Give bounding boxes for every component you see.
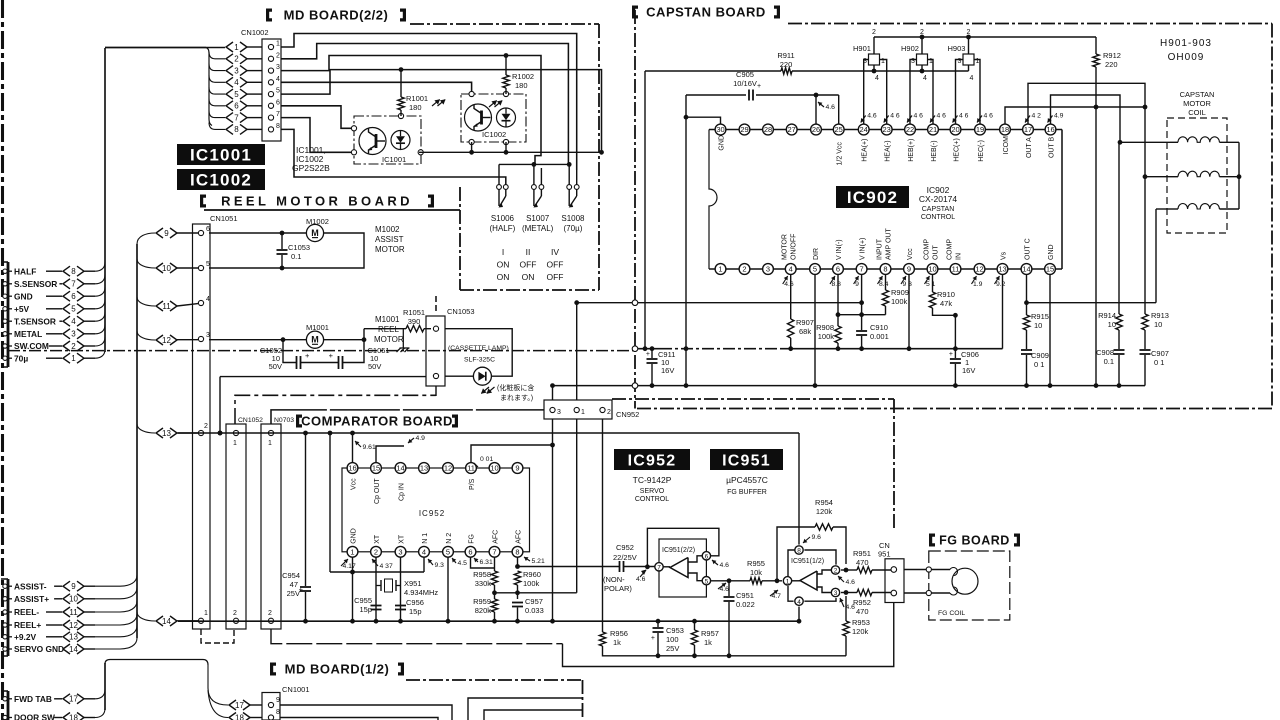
svg-text:6: 6 (206, 226, 210, 233)
op-amp IC951(2/2) triangle (670, 558, 688, 578)
fan curves CN1002 (206, 48, 212, 126)
svg-text:4: 4 (875, 75, 879, 82)
svg-text:C910: C910 (870, 323, 888, 332)
wire pin5 to GND bus (814, 274, 816, 385)
IC902 pin 18 (1000, 124, 1011, 135)
svg-text:R954: R954 (815, 498, 833, 507)
N0703 pin 2 (268, 618, 273, 623)
svg-text:IC902: IC902 (847, 188, 898, 207)
IC902 pin 22 (905, 124, 916, 135)
wire IC952 pin15 Cp OUT (376, 446, 404, 463)
svg-text:10: 10 (928, 265, 936, 274)
edge connector pin SW.COM (3, 344, 7, 348)
svg-text:2: 2 (834, 568, 838, 575)
svg-text:4.934MHz: 4.934MHz (404, 588, 438, 597)
svg-text:V IN(-): V IN(-) (836, 239, 843, 260)
svg-text:4.9: 4.9 (416, 435, 426, 442)
hall sensor H901 (869, 54, 880, 65)
svg-text:7: 7 (71, 280, 76, 289)
IC902 pin 3 (763, 264, 774, 275)
connector CN952 (544, 400, 612, 419)
svg-text:2: 2 (268, 610, 272, 617)
svg-text:C909: C909 (1031, 351, 1049, 360)
svg-text:1: 1 (581, 409, 585, 416)
svg-text:C951: C951 (736, 591, 754, 600)
svg-text:R952: R952 (853, 598, 871, 607)
svg-text:4.6: 4.6 (720, 586, 730, 593)
IC951(2/2) pin 7 (655, 563, 663, 571)
wire IC1001 output rail (419, 151, 602, 153)
svg-text:ASSIST-: ASSIST- (14, 581, 47, 591)
op-amp IC951(2/2) body box (659, 539, 706, 597)
cable arrow 10 (156, 263, 163, 273)
svg-text:IC952: IC952 (628, 452, 677, 469)
svg-text:9: 9 (855, 281, 859, 288)
svg-text:30: 30 (716, 125, 724, 134)
svg-text:R1001: R1001 (406, 94, 428, 103)
IC951(1/2) pin 1 (783, 577, 791, 585)
inter-board cable dash-dot wire y=350.6 (8, 350, 633, 352)
wire arrow13 to CN1051 pin2 (177, 432, 198, 434)
svg-text:CN952: CN952 (616, 410, 639, 419)
svg-text:HEC(-): HEC(-) (978, 140, 985, 162)
svg-text:4.7: 4.7 (772, 593, 782, 600)
svg-text:C908: C908 (1096, 348, 1114, 357)
svg-text:Vcc: Vcc (907, 248, 914, 260)
svg-text:47k: 47k (940, 299, 952, 308)
svg-text:R956: R956 (610, 629, 628, 638)
resistor R911 and rail (645, 70, 781, 72)
wire curve to bus (95, 575, 137, 586)
svg-text:N 2: N 2 (446, 533, 453, 544)
resistor R953 (845, 596, 847, 621)
svg-text:13: 13 (162, 429, 171, 438)
cassette lamp loop and labels (445, 329, 512, 377)
svg-text:(HALF): (HALF) (490, 224, 516, 233)
svg-text:4 6: 4 6 (914, 113, 924, 120)
svg-text:µPC4557C: µPC4557C (726, 475, 768, 485)
svg-text:4: 4 (789, 265, 793, 274)
connector CN1052 (226, 424, 246, 629)
edge connector pin 70µ (3, 356, 7, 360)
IC951(1/2) pin 4 (795, 597, 803, 605)
IC952 pin 15 (371, 463, 382, 474)
wire CN952 pin2 column to R956 (602, 419, 604, 632)
svg-text:R914: R914 (1098, 311, 1116, 320)
svg-text:OUT B: OUT B (1049, 136, 1056, 158)
svg-text:5: 5 (813, 265, 817, 274)
svg-text:5 1: 5 1 (926, 281, 936, 288)
svg-text:COMP: COMP (947, 239, 954, 260)
svg-text:180: 180 (409, 103, 422, 112)
IC902 pin 13 (997, 264, 1008, 275)
wire CN1002 pin3 (281, 56, 541, 165)
board title CAPSTAN BOARD (632, 6, 638, 19)
svg-text:H903: H903 (948, 44, 966, 53)
svg-text:OUT: OUT (933, 245, 940, 261)
board title FG BOARD (929, 534, 935, 547)
svg-text:4 37: 4 37 (380, 563, 393, 570)
optocoupler IC1001 LED (391, 131, 410, 150)
IC952 pin 6 (465, 546, 476, 557)
svg-text:20: 20 (951, 125, 959, 134)
svg-text:POLAR): POLAR) (604, 584, 632, 593)
switch S1007 (532, 185, 537, 190)
board title MD BOARD (1/2) (270, 663, 276, 676)
edge connector pin REEL+ (3, 623, 7, 627)
svg-text:S.SENSOR: S.SENSOR (14, 279, 57, 289)
svg-text:4.6: 4.6 (784, 281, 794, 288)
svg-text:1: 1 (71, 354, 76, 363)
resistor R914 and capacitor C908 snubber (1118, 142, 1120, 314)
wire arrow14 to CN1051 pin1 (177, 620, 198, 622)
wire curve to bus (95, 709, 105, 718)
CN952 pin 3 (550, 407, 555, 412)
CN1001 pin 9 (268, 702, 273, 707)
cable arrow 1 (226, 42, 233, 52)
svg-text:14: 14 (1022, 265, 1030, 274)
CN1002 pin 3 (268, 68, 273, 73)
connector CN1051 (193, 224, 211, 629)
IC902 pin 27 (786, 124, 797, 135)
wire OUT B pin16 to motor coil row1 (1051, 95, 1121, 142)
svg-text:N 1: N 1 (422, 533, 429, 544)
svg-text:14: 14 (162, 617, 171, 626)
svg-text:C954: C954 (282, 571, 300, 580)
edge connector pin GND (3, 294, 7, 298)
IC902 pin 16 (1045, 124, 1056, 135)
svg-text:7: 7 (276, 111, 280, 118)
wire x686 down to GND bus (685, 95, 687, 386)
svg-text:Vs: Vs (1001, 251, 1008, 260)
svg-text:OUT A: OUT A (1026, 137, 1033, 158)
svg-text:9.2: 9.2 (996, 281, 1006, 288)
svg-text:4.6: 4.6 (826, 104, 836, 111)
connector N0703 (261, 424, 281, 629)
IC952 body outline (342, 468, 530, 552)
edge connector block 2 (7, 579, 10, 656)
wire CN1002 pin4 to IC1002 (281, 82, 472, 94)
IC952 pin 16 (347, 463, 358, 474)
svg-text:7: 7 (492, 547, 496, 556)
svg-text:CAPSTAN: CAPSTAN (1180, 90, 1215, 99)
cable arrow 11 (156, 301, 163, 311)
wires CN1001 routing (280, 705, 452, 720)
IC902 pin 5 (810, 264, 821, 275)
cable arrow 6 (226, 101, 233, 111)
svg-text:R959: R959 (473, 597, 491, 606)
svg-text:+: + (646, 351, 650, 358)
edge connector pin S.SENSOR (3, 282, 7, 286)
CN1051 pin 6 (198, 230, 203, 235)
svg-text:4: 4 (71, 317, 76, 326)
svg-text:T.SENSOR: T.SENSOR (14, 316, 56, 326)
svg-text:ON: ON (497, 260, 510, 270)
svg-text:951: 951 (878, 550, 891, 559)
svg-text:IC952: IC952 (419, 509, 445, 518)
capacitor C955 (371, 605, 382, 607)
capacitor C1053 (281, 233, 283, 249)
wire curve to bus (95, 337, 105, 346)
IC902 pin 17 (1023, 124, 1034, 135)
svg-text:7: 7 (657, 564, 661, 571)
wire hall pin4 to R911 rail (873, 65, 875, 71)
capacitor C951 (728, 581, 730, 596)
svg-text:9.61: 9.61 (363, 444, 376, 451)
svg-text:6: 6 (468, 547, 472, 556)
svg-text:11: 11 (162, 302, 171, 311)
svg-text:820k: 820k (475, 606, 492, 615)
label IC902 (inverse) (836, 186, 909, 208)
svg-text:AFC: AFC (516, 530, 523, 544)
svg-text:0 1: 0 1 (1154, 358, 1164, 367)
CN951 pin top (891, 567, 897, 573)
cable arrow 13 (156, 428, 163, 438)
COMPARATOR board dashed border right (893, 399, 895, 528)
resistor R907 on pin4 (790, 274, 792, 319)
wire CN1002 pin6 to IC1001 (281, 106, 354, 129)
svg-text:1: 1 (234, 43, 239, 52)
svg-text:DOOR SW: DOOR SW (14, 713, 55, 720)
svg-text:AFC: AFC (493, 530, 500, 544)
svg-text:7: 7 (860, 265, 864, 274)
svg-text:16: 16 (1046, 125, 1054, 134)
wire pin5 to R955 (711, 580, 750, 582)
edge connector block 3 (7, 691, 10, 720)
CN951 pin bottom (891, 590, 897, 596)
svg-text:R907: R907 (796, 318, 814, 327)
label IC1001 (inverse) (177, 144, 265, 165)
svg-text:50V: 50V (269, 362, 282, 371)
svg-text:ON: ON (522, 272, 535, 282)
svg-text:R915: R915 (1031, 312, 1049, 321)
svg-text:INPUT: INPUT (877, 238, 884, 260)
IC952 pin 8 (512, 546, 523, 557)
svg-text:REEL: REEL (378, 325, 399, 334)
wire arrow11 to CN1051 pin4 (177, 304, 198, 306)
svg-text:IC1001: IC1001 (190, 146, 252, 165)
cable arrow 14 (156, 616, 163, 626)
svg-text:21: 21 (929, 125, 937, 134)
wire N0703 to CN952 pin3 (271, 410, 544, 424)
wire H901 pins to IC902 pins 24/23 (864, 60, 869, 125)
wire x645 down to Vcc bus (644, 71, 646, 349)
IC902 pin 4 (785, 264, 796, 275)
COMPARATOR board dashed border top-right (612, 398, 894, 400)
wire curve to bus (95, 614, 137, 625)
svg-text:H902: H902 (901, 44, 919, 53)
svg-text:8.4: 8.4 (879, 281, 889, 288)
svg-text:R913: R913 (1151, 311, 1169, 320)
svg-text:HEB(-): HEB(-) (931, 140, 938, 161)
board title MD BOARD (2/2) (266, 9, 272, 22)
svg-text:9: 9 (71, 582, 76, 591)
edge connector pin DOOR SW (3, 715, 7, 719)
connector CN1002 (262, 39, 281, 141)
CN1002 pin 5 (268, 92, 273, 97)
svg-text:ON: ON (497, 272, 510, 282)
svg-text:3: 3 (834, 590, 838, 597)
CN1051 pin 2 (198, 430, 203, 435)
CN1051 pin 4 (198, 300, 203, 305)
svg-text:R1051: R1051 (403, 308, 425, 317)
capacitor C952 non-polar (518, 566, 620, 568)
svg-text:4.6: 4.6 (636, 576, 646, 583)
CN1002 pin 6 (268, 103, 273, 108)
svg-text:1.9: 1.9 (973, 281, 983, 288)
IC902 pin 25 (833, 124, 844, 135)
wire pin15 GND down (1049, 274, 1051, 385)
svg-text:4 6: 4 6 (984, 113, 994, 120)
cable arrow 2 (226, 54, 233, 64)
svg-text:4.6: 4.6 (846, 579, 856, 586)
N0703 pin 1 (268, 430, 273, 435)
CN1002 pin 8 (268, 127, 273, 132)
FG coil (952, 568, 978, 594)
svg-text:6: 6 (705, 553, 709, 560)
CN1051 pin 3 (198, 336, 203, 341)
svg-text:1: 1 (233, 440, 237, 447)
switch S1006 (497, 185, 502, 190)
IC952 pin 10 (489, 463, 500, 474)
IC902 pin 14 (1021, 264, 1032, 275)
svg-text:5: 5 (705, 578, 709, 585)
IC951(1/2) loop (788, 550, 799, 581)
IC952 pin 13 (419, 463, 430, 474)
IC902 pin 24 (858, 124, 869, 135)
svg-text:9.3: 9.3 (435, 562, 445, 569)
optocoupler IC1001 phototransistor (359, 128, 386, 155)
svg-text:COMP: COMP (924, 239, 931, 260)
svg-text:CONTROL: CONTROL (921, 214, 955, 221)
IC902 pin 30 (715, 124, 726, 135)
wire GND pin30 branch (686, 117, 721, 124)
svg-text:R911: R911 (777, 51, 794, 60)
svg-text:9.6: 9.6 (812, 534, 822, 541)
svg-text:C905: C905 (736, 70, 754, 79)
capacitor C954 (305, 433, 307, 586)
svg-text:OFF: OFF (547, 272, 564, 282)
svg-text:14: 14 (69, 645, 78, 654)
svg-text:CX-20174: CX-20174 (919, 194, 958, 204)
wire curve to bus (95, 262, 105, 271)
svg-text:19: 19 (976, 125, 984, 134)
IC902 body outline (709, 129, 1062, 131)
svg-text:3: 3 (766, 265, 770, 274)
svg-text:9: 9 (276, 697, 280, 704)
svg-text:8: 8 (276, 123, 280, 130)
wire hall sensors pin2 rail to R912 (874, 36, 1096, 38)
svg-text:+5V: +5V (14, 304, 30, 314)
IC902 pin 9 (904, 264, 915, 275)
IC951(2/2) pin 6 (702, 552, 710, 560)
svg-text:COMPARATOR BOARD: COMPARATOR BOARD (301, 413, 453, 428)
cable bus wire bottom (vertical x=105) (104, 663, 106, 710)
svg-text:C952: C952 (616, 543, 634, 552)
svg-text:SERVO: SERVO (640, 488, 665, 495)
svg-text:0.1: 0.1 (291, 252, 301, 261)
svg-text:R1002: R1002 (512, 72, 534, 81)
svg-text:29: 29 (740, 125, 748, 134)
svg-text:25V: 25V (287, 589, 300, 598)
wire comparator V IN line y=302.7 (577, 302, 862, 304)
svg-text:10: 10 (162, 264, 171, 273)
svg-text:IC951(1/2): IC951(1/2) (791, 558, 824, 565)
cable arrow 17 (229, 700, 236, 710)
CAPSTAN board dashed border top (788, 23, 1272, 25)
svg-text:12: 12 (444, 464, 452, 473)
svg-text:HEA(+): HEA(+) (862, 139, 869, 162)
resistor R954 feedback (777, 527, 815, 581)
svg-text:AMP OUT: AMP OUT (886, 228, 893, 260)
svg-text:1: 1 (350, 547, 354, 556)
svg-text:0 01: 0 01 (480, 456, 493, 463)
wire CN1002 pin8 to S1006 (281, 129, 506, 184)
svg-text:10/16V: 10/16V (733, 79, 757, 88)
svg-text:10: 10 (1154, 320, 1162, 329)
svg-text:MOTOR: MOTOR (375, 245, 405, 254)
svg-text:CAPSTAN BOARD: CAPSTAN BOARD (646, 4, 766, 19)
svg-text:XT: XT (374, 534, 381, 544)
optocoupler IC1001 pins (351, 126, 356, 131)
svg-text:C906: C906 (961, 350, 979, 359)
edge connector block 1 (7, 262, 10, 367)
svg-text:11: 11 (952, 265, 960, 274)
svg-text:H901-903: H901-903 (1160, 38, 1212, 49)
svg-text:15p: 15p (409, 607, 422, 616)
IC951(1/2) pin 8 (795, 546, 803, 554)
svg-text:X951: X951 (404, 579, 422, 588)
svg-text:HEA(-): HEA(-) (885, 140, 892, 161)
svg-text:C907: C907 (1151, 349, 1169, 358)
svg-text:11: 11 (467, 464, 475, 473)
svg-text:1: 1 (276, 41, 280, 48)
svg-text:16: 16 (348, 464, 356, 473)
svg-text:14: 14 (396, 464, 404, 473)
svg-text:24: 24 (860, 125, 868, 134)
resistor R909 on pin8 (885, 274, 887, 290)
svg-text:R908: R908 (816, 323, 834, 332)
resistor R915 and capacitor C909 (1026, 303, 1028, 315)
capacitor C957 (512, 602, 523, 604)
wire coil row1 feed (1120, 141, 1170, 143)
svg-text:CN1051: CN1051 (210, 214, 238, 223)
svg-text:IC1001: IC1001 (382, 155, 406, 164)
wire curve to bus (95, 638, 137, 649)
svg-text:4.6: 4.6 (720, 562, 730, 569)
optocoupler IC1002 box (461, 94, 526, 142)
svg-text:IV: IV (551, 247, 559, 257)
resistor R951 (841, 569, 857, 571)
CN1051 pin 1 (198, 618, 203, 623)
wire S1007 right pin up (540, 168, 542, 185)
IC902 pin 2 (739, 264, 750, 275)
edge connector pin ASSIST+ (3, 597, 7, 601)
svg-text:M1001: M1001 (375, 315, 400, 324)
svg-text:MD BOARD(1/2): MD BOARD(1/2) (285, 661, 390, 676)
resistor R908 on pin6 (837, 274, 839, 326)
svg-text:15: 15 (1046, 265, 1054, 274)
wire curve to bus (95, 601, 137, 612)
svg-text:4: 4 (923, 75, 927, 82)
wire IC952 pin11 P/S (471, 445, 553, 463)
svg-text:2: 2 (234, 55, 239, 64)
svg-text:390: 390 (408, 317, 421, 326)
edge connector pin +5V (3, 307, 7, 311)
svg-text:5: 5 (234, 90, 239, 99)
FG board box (929, 551, 1010, 620)
svg-text:MD BOARD(2/2): MD BOARD(2/2) (284, 7, 389, 22)
